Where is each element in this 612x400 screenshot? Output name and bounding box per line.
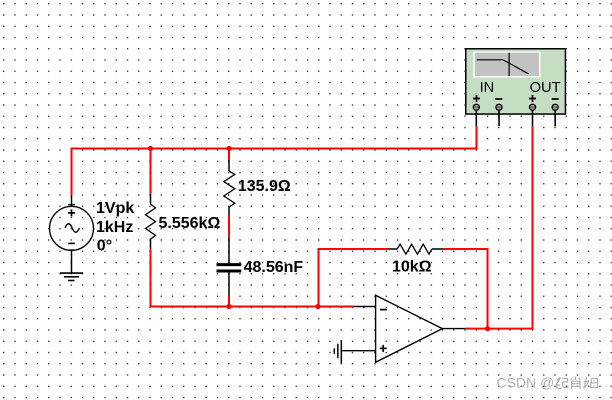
svg-text:10kΩ: 10kΩ — [392, 259, 432, 276]
svg-text:1Vpk: 1Vpk — [96, 200, 134, 217]
svg-text:OUT: OUT — [530, 80, 561, 96]
svg-text:135.9Ω: 135.9Ω — [238, 178, 291, 195]
svg-text:CSDN @: CSDN @ — [497, 374, 555, 390]
svg-text:IN: IN — [480, 80, 495, 96]
svg-text:1kHz: 1kHz — [96, 219, 133, 236]
svg-text:0°: 0° — [97, 237, 112, 254]
svg-text:48.56nF: 48.56nF — [244, 259, 304, 276]
svg-text:5.556kΩ: 5.556kΩ — [159, 215, 221, 232]
